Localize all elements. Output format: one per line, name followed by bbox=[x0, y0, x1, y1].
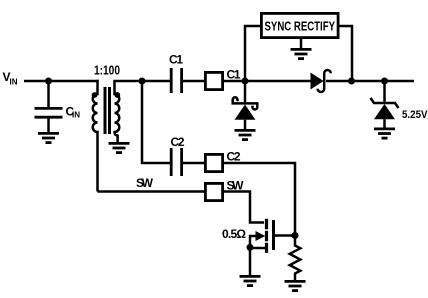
pin SW bbox=[205, 179, 244, 201]
wire C2 cap to pin box bbox=[183, 162, 204, 165]
svg-text:IN: IN bbox=[10, 78, 18, 87]
ground below transformer secondary bbox=[109, 143, 130, 152]
pin C1 bbox=[205, 68, 240, 90]
capacitor C2 bbox=[171, 135, 185, 176]
wire VIN to transformer primary bbox=[24, 80, 99, 83]
junction dot zener D1 node bbox=[242, 78, 249, 85]
junction dot C2 branch bbox=[139, 78, 146, 85]
pin C2 bbox=[205, 150, 240, 172]
wire CIN to ground bbox=[47, 119, 50, 132]
wire CIN drop bbox=[47, 81, 50, 107]
svg-text:C2: C2 bbox=[227, 150, 241, 164]
ground below sync rectify bbox=[291, 49, 312, 58]
wire schottky cathode to output bbox=[326, 80, 414, 83]
resistor R1 bbox=[290, 236, 301, 282]
ground below resistor R1 bbox=[285, 281, 306, 290]
block SYNC RECTIFY bbox=[261, 13, 338, 37]
wire C2 pin to gate node bbox=[224, 163, 295, 236]
transistor Q1 mosfet bbox=[250, 219, 274, 253]
wire mosfet gate to node bbox=[275, 234, 295, 237]
schottky diode D2 bbox=[311, 70, 331, 92]
svg-text:5.25V: 5.25V bbox=[402, 109, 428, 121]
ground below zener D1 bbox=[235, 130, 256, 139]
svg-text:IN: IN bbox=[72, 111, 80, 120]
svg-text:0.5Ω: 0.5Ω bbox=[222, 227, 246, 241]
junction dot 5.25V zener tap bbox=[381, 78, 388, 85]
secondary winding bbox=[115, 81, 120, 142]
wire primary bottom to SW pin bbox=[98, 190, 205, 193]
junction dot sync right leg bbox=[348, 78, 355, 85]
svg-text:C1: C1 bbox=[227, 68, 241, 82]
junction dot gate node bbox=[292, 232, 299, 239]
svg-text:1:100: 1:100 bbox=[94, 63, 120, 77]
wire C1 pin to schottky anode bbox=[224, 80, 311, 83]
wire down to zener D1 bbox=[244, 81, 247, 102]
junction dot source-body tie bbox=[247, 244, 254, 251]
wire C1 cap to pin box bbox=[183, 80, 204, 83]
wire sync left leg bbox=[245, 26, 260, 81]
svg-text:C1: C1 bbox=[169, 53, 183, 67]
svg-text:SW: SW bbox=[136, 176, 154, 190]
primary winding bbox=[93, 80, 98, 192]
wire sync right leg bbox=[340, 26, 353, 81]
ground below CIN bbox=[38, 133, 59, 142]
ground below mosfet source bbox=[240, 276, 261, 285]
polarity dot secondary bbox=[114, 92, 120, 98]
wire secondary top to C1 bbox=[113, 80, 170, 83]
capacitor CIN bbox=[35, 105, 81, 120]
capacitor C1 bbox=[169, 53, 183, 94]
transformer T1 1:100 bbox=[92, 63, 121, 191]
junction dot CIN tap bbox=[45, 78, 52, 85]
node VIN label bbox=[3, 70, 18, 87]
wire SW pin to mosfet drain bbox=[224, 192, 264, 223]
wire branch down to C2 row bbox=[142, 81, 170, 163]
core bars bbox=[104, 87, 107, 134]
zener D3 5.25V bbox=[371, 81, 428, 128]
wire sync ground stub bbox=[300, 39, 303, 48]
ground below 5.25V zener bbox=[374, 129, 395, 138]
svg-text:SYNC RECTIFY: SYNC RECTIFY bbox=[265, 19, 336, 34]
polarity dot primary bbox=[92, 92, 98, 98]
wire mosfet source to ground bbox=[249, 235, 252, 275]
svg-text:C2: C2 bbox=[171, 135, 185, 149]
zener D1 bbox=[233, 97, 258, 129]
